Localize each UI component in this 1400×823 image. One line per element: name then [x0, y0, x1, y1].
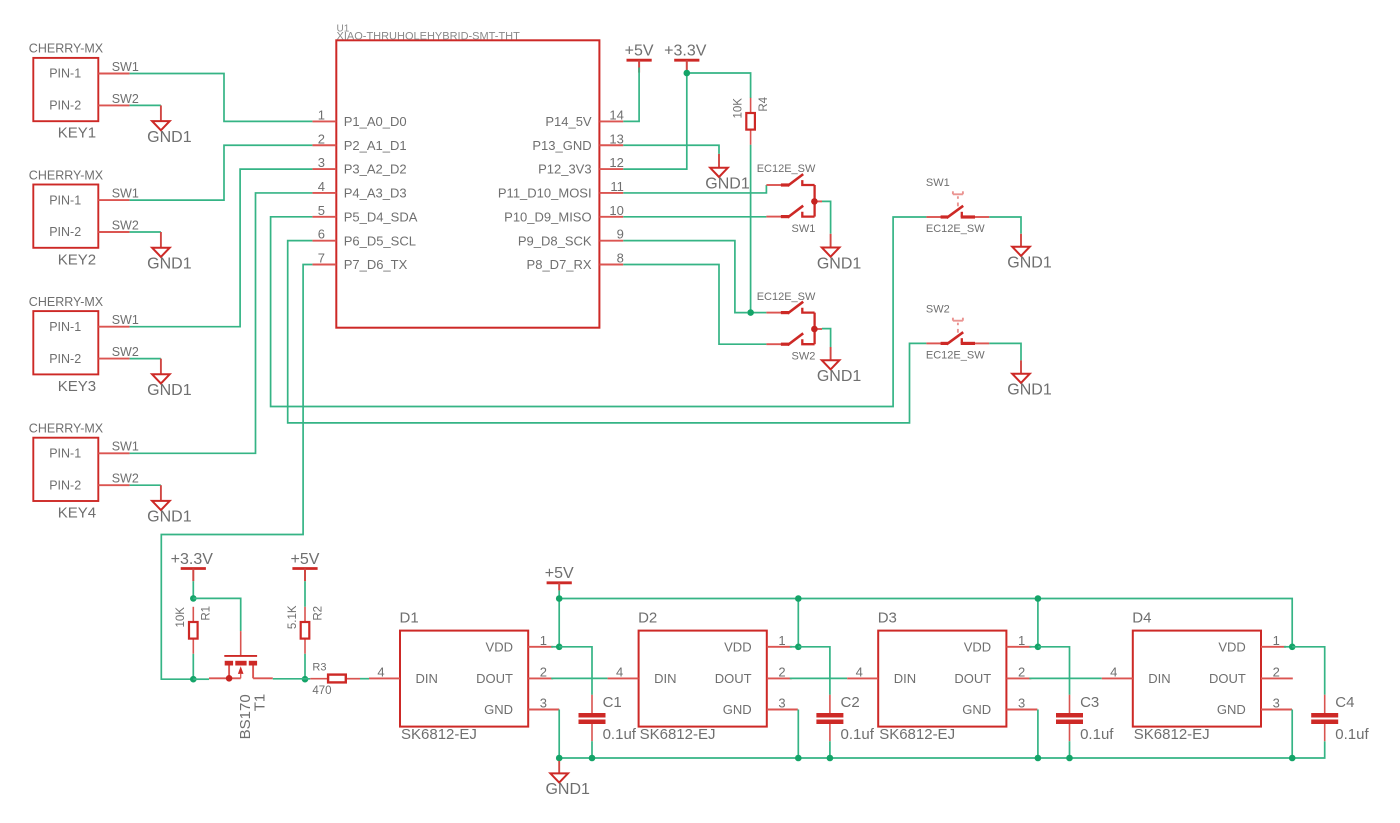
svg-text:P9_D8_SCK: P9_D8_SCK — [518, 233, 592, 248]
svg-text:SW2: SW2 — [112, 345, 139, 359]
pin 2 (SW2) of KEY2 — [98, 231, 129, 233]
svg-text:P11_D10_MOSI: P11_D10_MOSI — [498, 186, 592, 201]
svg-text:KEY2: KEY2 — [58, 251, 96, 268]
wire U1 pin11 to encoder1 A — [623, 185, 766, 193]
svg-text:CHERRY-MX: CHERRY-MX — [29, 168, 104, 182]
svg-text:P1_A0_D0: P1_A0_D0 — [344, 114, 407, 129]
pin 1 (VDD) of D2 — [767, 633, 792, 648]
wire D3 GND to rail — [1037, 710, 1039, 759]
svg-text:3: 3 — [1018, 696, 1025, 711]
ground GND1 at LED rail — [545, 761, 590, 798]
svg-text:GND1: GND1 — [147, 509, 192, 526]
pin 3 (GND) of D4 — [1261, 696, 1292, 711]
svg-text:P10_D9_MISO: P10_D9_MISO — [504, 209, 591, 224]
svg-text:14: 14 — [609, 107, 623, 122]
svg-text:3: 3 — [318, 155, 325, 170]
svg-text:SW1: SW1 — [112, 60, 139, 74]
pin 2 (SW2) of KEY4 — [98, 484, 129, 486]
svg-text:0.1uf: 0.1uf — [603, 726, 637, 743]
svg-text:CHERRY-MX: CHERRY-MX — [29, 295, 104, 309]
svg-text:EC12E_SW: EC12E_SW — [757, 163, 816, 175]
wire D1 GND to rail — [558, 710, 560, 759]
svg-text:0.1uf: 0.1uf — [841, 726, 875, 743]
svg-text:3: 3 — [778, 696, 785, 711]
svg-text:P3_A2_D2: P3_A2_D2 — [344, 162, 407, 177]
pin 2 (DOUT) of D2 — [767, 664, 792, 679]
svg-text:1: 1 — [778, 633, 785, 648]
wire U1 pin5 to pushbutton SW1 — [271, 217, 927, 407]
pin 2 (SW2) of KEY1 — [98, 104, 129, 106]
svg-text:470: 470 — [312, 685, 331, 697]
svg-text:GND1: GND1 — [705, 176, 750, 193]
svg-text:KEY4: KEY4 — [58, 505, 96, 522]
svg-text:12: 12 — [609, 155, 623, 170]
svg-text:PIN-2: PIN-2 — [49, 478, 81, 492]
junction (D1 GND at rail) — [556, 755, 563, 762]
svg-text:+3.3V: +3.3V — [171, 551, 214, 568]
pin 4 (P4_A3_D3) of U1 — [312, 179, 406, 201]
junction (R1 top / gate node) — [190, 595, 197, 602]
wire GND rail (bottom) — [559, 741, 1324, 758]
switch SW2 (EC12E_SW pushbutton) — [926, 318, 989, 345]
svg-text:1: 1 — [540, 633, 547, 648]
junction (C1 at GND rail) — [589, 755, 596, 762]
wire encoder2 common to ground — [822, 329, 831, 347]
svg-text:DOUT: DOUT — [1209, 671, 1246, 686]
svg-text:GND: GND — [1217, 702, 1246, 717]
pin 1 (SW1) of KEY4 — [98, 452, 129, 454]
wire U1 pin14 to +5V — [623, 68, 639, 122]
svg-text:10K: 10K — [175, 607, 187, 628]
svg-text:VDD: VDD — [964, 639, 991, 654]
svg-text:EC12E_SW: EC12E_SW — [926, 350, 985, 362]
wire KEY4 SW2 to ground — [130, 484, 161, 486]
svg-text:R1: R1 — [201, 606, 213, 621]
svg-text:1: 1 — [1018, 633, 1025, 648]
wire +3.3V to U1 pin12 — [623, 73, 687, 169]
pin 8 (P8_D7_RX) of U1 — [527, 251, 624, 273]
svg-text:8: 8 — [617, 251, 624, 266]
junction (T1 source pad) — [226, 675, 233, 682]
wire encoder2 A node to pin — [751, 312, 767, 314]
svg-text:+5V: +5V — [545, 565, 574, 582]
wire U1 pin8 to encoder2 B — [623, 265, 766, 345]
pin 4 (DIN) of D4 — [1102, 664, 1133, 679]
svg-text:XIAO-THRUHOLEHYBRID-SMT-THT: XIAO-THRUHOLEHYBRID-SMT-THT — [337, 31, 521, 43]
pin 4 (DIN) of D2 — [608, 664, 639, 679]
label EC12E_SW (SW2) — [757, 291, 816, 303]
wire D3 VDD node to C3 — [1038, 647, 1070, 695]
svg-text:PIN-1: PIN-1 — [49, 193, 81, 207]
svg-text:DIN: DIN — [1148, 671, 1170, 686]
svg-text:SK6812-EJ: SK6812-EJ — [1134, 726, 1210, 743]
svg-text:2: 2 — [540, 664, 547, 679]
net label SW1 (KEY3) — [112, 313, 139, 327]
pin 10 (P10_D9_MISO) of U1 — [504, 203, 624, 225]
junction (D2 VDD node) — [795, 644, 802, 651]
pin 13 (P13_GND) of U1 — [532, 131, 624, 153]
junction (common of SW2) — [811, 326, 818, 333]
junction (+3.3V node) — [684, 70, 691, 77]
svg-text:DOUT: DOUT — [954, 671, 991, 686]
pin 2 (P2_A1_D1) of U1 — [312, 131, 406, 153]
net label SW2 (KEY1) — [112, 92, 139, 106]
junction (D2 GND at rail) — [795, 755, 802, 762]
svg-text:GND: GND — [962, 702, 991, 717]
svg-text:VDD: VDD — [486, 639, 513, 654]
svg-text:GND1: GND1 — [817, 368, 862, 385]
pin 4 (DIN) of D3 — [847, 664, 878, 679]
svg-text:P5_D4_SDA: P5_D4_SDA — [344, 209, 418, 224]
wire U1 pin13 to ground — [623, 145, 719, 154]
label SW2 (pushbutton) — [926, 304, 950, 316]
label SW1 — [792, 223, 816, 235]
wire D4 GND to rail — [1291, 710, 1293, 759]
diode D3 SK6812-EJ — [878, 609, 1007, 743]
wire R2 bottom to wire — [304, 654, 306, 679]
wire +5V rail (top) — [559, 599, 1292, 647]
svg-text:D3: D3 — [878, 609, 897, 626]
wire D2 VDD to rail column — [790, 646, 799, 648]
pin 14 (P14_5V) of U1 — [545, 107, 624, 129]
wire D3 DOUT to D4 DIN — [1029, 677, 1101, 679]
svg-text:3: 3 — [1273, 696, 1280, 711]
svg-text:5.1K: 5.1K — [287, 605, 299, 629]
svg-text:2: 2 — [1018, 664, 1025, 679]
wire pushbutton SW1 to ground — [989, 217, 1021, 234]
wire DIN net segment (T1 to R3) — [273, 678, 311, 680]
svg-text:1: 1 — [1273, 633, 1280, 648]
svg-text:2: 2 — [1273, 664, 1280, 679]
svg-text:SW1: SW1 — [926, 177, 950, 189]
pin 1 (SW1) of KEY2 — [98, 199, 129, 201]
wire D3 VDD to rail column — [1029, 646, 1038, 648]
label EC12E_SW (SW2 pushbutton) — [926, 350, 985, 362]
resistor R3 470 — [310, 662, 360, 698]
pin 7 (P7_D6_TX) of U1 — [312, 251, 407, 273]
svg-text:1: 1 — [318, 107, 325, 122]
svg-text:SW2: SW2 — [792, 350, 816, 362]
wire U1 pin6 to pushbutton SW2 — [288, 241, 927, 423]
net label SW2 (KEY4) — [112, 472, 139, 486]
svg-text:0.1uf: 0.1uf — [1335, 726, 1369, 743]
svg-text:PIN-2: PIN-2 — [49, 99, 81, 113]
svg-text:DOUT: DOUT — [715, 671, 752, 686]
capacitor C3 0.1uf — [1056, 694, 1114, 743]
label SW1 (pushbutton) — [926, 177, 950, 189]
wire rail drop to D1 VDD — [558, 599, 560, 647]
pin 3 (GND) of D2 — [767, 696, 798, 711]
net label SW1 (KEY2) — [112, 187, 139, 201]
svg-text:DIN: DIN — [894, 671, 916, 686]
wire KEY2 SW2 to ground — [130, 231, 161, 233]
svg-text:R4: R4 — [758, 96, 770, 111]
svg-text:GND1: GND1 — [1007, 382, 1052, 399]
svg-text:EC12E_SW: EC12E_SW — [757, 291, 816, 303]
wire KEY1 SW2 to ground — [130, 104, 161, 106]
wire +3.3V to R4 — [687, 73, 751, 98]
junction (D4 GND at rail) — [1289, 755, 1296, 762]
transistor T1 BS170 (MOSFET) — [224, 631, 268, 739]
resistor R1 10K — [175, 606, 213, 654]
svg-text:KEY1: KEY1 — [58, 125, 96, 142]
pin 1 (VDD) of D1 — [528, 633, 553, 648]
junction (common of SW1) — [811, 198, 818, 205]
junction (C2 at GND rail) — [827, 755, 834, 762]
svg-text:SW2: SW2 — [112, 92, 139, 106]
svg-text:+5V: +5V — [291, 551, 320, 568]
svg-text:2: 2 — [778, 664, 785, 679]
wire +3.3V to R1 top — [192, 581, 194, 598]
svg-text:4: 4 — [318, 179, 325, 194]
junction (rail at D3 VDD column) — [1035, 595, 1042, 602]
net label SW2 (KEY2) — [112, 218, 139, 232]
svg-text:9: 9 — [617, 227, 624, 242]
svg-text:EC12E_SW: EC12E_SW — [926, 223, 985, 235]
svg-text:P14_5V: P14_5V — [545, 114, 592, 129]
svg-text:CHERRY-MX: CHERRY-MX — [29, 42, 104, 56]
wire KEY3 SW1 to U1 pin3 — [130, 169, 313, 327]
diode D1 SK6812-EJ — [400, 609, 529, 743]
svg-text:C1: C1 — [603, 694, 622, 711]
svg-text:13: 13 — [609, 131, 623, 146]
wire KEY3 SW2 to ground — [130, 358, 161, 360]
svg-text:DOUT: DOUT — [476, 671, 513, 686]
ground GND1 at KEY3 — [147, 359, 192, 400]
svg-text:VDD: VDD — [724, 639, 751, 654]
label EC12E_SW (SW1) — [757, 163, 816, 175]
junction (D1 VDD node) — [556, 644, 563, 651]
pin 3 (GND) of D1 — [528, 696, 559, 711]
svg-text:P13_GND: P13_GND — [532, 138, 591, 153]
svg-text:11: 11 — [610, 179, 624, 194]
junction (encoder2 / R4 node) — [747, 309, 754, 316]
wire D2 GND to rail — [797, 710, 799, 759]
wire R3 to D1 DIN — [360, 678, 369, 680]
pin 9 (P9_D8_SCK) of U1 — [518, 227, 624, 249]
pin 11 (P11_D10_MOSI) of U1 — [498, 179, 624, 201]
resistor R2 5.1K — [287, 605, 325, 654]
svg-text:GND1: GND1 — [147, 129, 192, 146]
power +3.3V (top) — [664, 43, 707, 71]
junction (D3 GND at rail) — [1035, 755, 1042, 762]
svg-text:SW1: SW1 — [792, 223, 816, 235]
net label SW2 (KEY3) — [112, 345, 139, 359]
svg-text:4: 4 — [856, 664, 863, 679]
svg-text:SW2: SW2 — [926, 304, 950, 316]
svg-text:PIN-2: PIN-2 — [49, 352, 81, 366]
svg-text:GND1: GND1 — [545, 781, 590, 798]
svg-text:SK6812-EJ: SK6812-EJ — [879, 726, 955, 743]
wire gate wire from +3.3V node — [193, 598, 240, 631]
svg-text:P12_3V3: P12_3V3 — [538, 162, 592, 177]
pin 1 (VDD) of D3 — [1006, 633, 1031, 648]
wire KEY1 SW1 to U1 pin1 — [130, 74, 313, 122]
svg-text:GND1: GND1 — [147, 382, 192, 399]
power +5V (top) — [625, 43, 654, 73]
transistor-like rotary switch EC12E_SW (SW1 encoder) — [766, 174, 822, 217]
svg-text:SK6812-EJ: SK6812-EJ — [401, 726, 477, 743]
junction (rail at D1 VDD column) — [556, 595, 563, 602]
switch SW1 (EC12E_SW pushbutton) — [926, 191, 989, 218]
svg-text:C4: C4 — [1335, 694, 1354, 711]
svg-text:R3: R3 — [312, 662, 326, 674]
wire U1 pin10 to encoder1 B — [623, 216, 766, 218]
wire D1 DOUT to D2 DIN — [551, 677, 607, 679]
svg-text:4: 4 — [616, 664, 623, 679]
pin 1 (SW1) of KEY1 — [98, 73, 129, 75]
ground GND1 at KEY4 — [147, 485, 192, 526]
ground GND1 at KEY2 — [147, 232, 192, 273]
svg-text:PIN-2: PIN-2 — [49, 225, 81, 239]
svg-text:CHERRY-MX: CHERRY-MX — [29, 422, 104, 436]
wire rail drop to D2 VDD — [797, 599, 799, 647]
pin 1 (P1_A0_D0) of U1 — [312, 107, 406, 129]
wire D1 VDD to rail column — [551, 646, 559, 648]
svg-text:DIN: DIN — [654, 671, 676, 686]
wire rail drop to D3 VDD — [1037, 599, 1039, 647]
wire R4 to encoder1 node — [750, 145, 752, 313]
op-amp U1 XIAO-THRUHOLEHYBRID-SMT-THT (main MCU symbol) — [336, 23, 599, 327]
pin 1 (VDD) of D4 — [1261, 633, 1286, 648]
wire C2 to GND rail — [829, 741, 831, 758]
wire C3 to GND rail — [1069, 741, 1071, 758]
svg-text:P8_D7_RX: P8_D7_RX — [527, 257, 592, 272]
svg-text:+5V: +5V — [625, 43, 654, 60]
svg-text:PIN-1: PIN-1 — [49, 447, 81, 461]
net label SW1 (KEY1) — [112, 60, 139, 74]
ground GND1 at encoder SW1 — [817, 234, 862, 272]
wire D2 DOUT to D3 DIN — [790, 677, 847, 679]
label EC12E_SW (SW1 pushbutton) — [926, 223, 985, 235]
svg-text:GND1: GND1 — [147, 256, 192, 273]
svg-text:C2: C2 — [841, 694, 860, 711]
junction (rail at D2 VDD column) — [795, 595, 802, 602]
pin 3 (P3_A2_D2) of U1 — [312, 155, 406, 177]
junction (R1 bottom on DIN net) — [190, 676, 197, 683]
wire DIN net segment (left of T1) — [193, 678, 209, 680]
svg-text:4: 4 — [377, 664, 384, 679]
wire KEY2 SW1 to U1 pin2 — [130, 145, 313, 200]
svg-text:GND: GND — [484, 702, 513, 717]
svg-text:7: 7 — [318, 251, 325, 266]
svg-text:SW1: SW1 — [112, 313, 139, 327]
pin 2 (DOUT) of D1 — [528, 664, 553, 679]
svg-text:SK6812-EJ: SK6812-EJ — [640, 726, 716, 743]
diode D4 SK6812-EJ — [1132, 609, 1261, 743]
pin 12 (P12_3V3) of U1 — [538, 155, 624, 177]
pin 2 (DOUT) of D4 — [1261, 664, 1293, 679]
svg-text:DIN: DIN — [416, 671, 438, 686]
svg-text:C3: C3 — [1080, 694, 1099, 711]
junction (D3 VDD node) — [1035, 644, 1042, 651]
svg-text:0.1uf: 0.1uf — [1080, 726, 1114, 743]
diode D2 SK6812-EJ — [638, 609, 767, 743]
svg-text:SW2: SW2 — [112, 472, 139, 486]
svg-text:D2: D2 — [638, 609, 657, 626]
net label SW1 (KEY4) — [112, 440, 139, 454]
ground GND1 at pushbutton SW2 — [1007, 360, 1052, 398]
svg-text:GND: GND — [723, 702, 752, 717]
switch KEY3 (CHERRY-MX) — [29, 295, 104, 395]
rotary switch EC12E_SW (SW2 encoder) — [766, 302, 822, 345]
junction (R2 bottom) — [302, 676, 309, 683]
svg-text:SW2: SW2 — [112, 218, 139, 232]
wire source side of T1 (red) — [209, 677, 241, 679]
pin 3 (GND) of D3 — [1006, 696, 1037, 711]
ground GND1 at U1 pin13 — [705, 154, 750, 193]
wire drain side of T1 (red) — [253, 677, 273, 679]
svg-text:D1: D1 — [400, 609, 419, 626]
svg-text:T1: T1 — [252, 694, 269, 712]
svg-text:SW1: SW1 — [112, 187, 139, 201]
svg-text:P6_D5_SCL: P6_D5_SCL — [344, 233, 416, 248]
power +5V (LED rail) — [545, 565, 574, 590]
junction (D4 VDD node) — [1289, 644, 1296, 651]
wire encoder1 common to ground — [822, 201, 831, 233]
svg-text:4: 4 — [1110, 664, 1117, 679]
wire U1 pin9 to encoder2 A — [623, 241, 747, 313]
svg-text:P7_D6_TX: P7_D6_TX — [344, 257, 408, 272]
power +3.3V (bottom) — [171, 551, 214, 581]
wire U1 pin7 to level shifter (DIN net) — [161, 265, 312, 680]
wire R1 bottom to DIN net — [192, 654, 194, 679]
svg-text:GND1: GND1 — [817, 255, 862, 272]
wire D1 VDD node to C1 — [559, 647, 592, 695]
svg-text:3: 3 — [540, 696, 547, 711]
wire D4 VDD to rail column — [1284, 646, 1292, 648]
pin 5 (P5_D4_SDA) of U1 — [312, 203, 417, 225]
svg-text:R2: R2 — [312, 606, 324, 621]
pin 2 (SW2) of KEY3 — [98, 358, 129, 360]
svg-text:PIN-1: PIN-1 — [49, 67, 81, 81]
switch KEY1 (CHERRY-MX) — [29, 42, 104, 142]
capacitor C2 0.1uf — [816, 694, 874, 743]
capacitor C1 0.1uf — [579, 694, 637, 743]
svg-text:6: 6 — [318, 227, 325, 242]
capacitor C4 0.1uf — [1311, 694, 1369, 743]
switch KEY2 (CHERRY-MX) — [29, 168, 104, 268]
wire +5V stub to rail — [558, 590, 560, 598]
svg-text:5: 5 — [318, 203, 325, 218]
wire pushbutton SW2 to ground — [989, 343, 1021, 360]
svg-text:2: 2 — [318, 131, 325, 146]
junction (C3 at GND rail) — [1066, 755, 1073, 762]
pin 6 (P6_D5_SCL) of U1 — [312, 227, 416, 249]
ground GND1 at encoder SW2 — [817, 347, 862, 385]
svg-text:VDD: VDD — [1218, 639, 1245, 654]
svg-text:+3.3V: +3.3V — [664, 43, 707, 60]
ground GND1 at pushbutton SW1 — [1007, 234, 1052, 272]
resistor R4 10K — [732, 96, 770, 144]
pin 2 (DOUT) of D3 — [1006, 664, 1031, 679]
svg-text:10: 10 — [609, 203, 623, 218]
svg-text:P4_A3_D3: P4_A3_D3 — [344, 186, 407, 201]
wire C1 to GND rail — [591, 741, 593, 758]
svg-text:P2_A1_D1: P2_A1_D1 — [344, 138, 407, 153]
svg-text:GND1: GND1 — [1007, 255, 1052, 272]
svg-text:PIN-1: PIN-1 — [49, 320, 81, 334]
wire +5V to R2 top — [304, 581, 306, 607]
pin 4 (DIN) of D1 — [369, 664, 400, 679]
ground GND1 at KEY1 — [147, 105, 192, 145]
svg-text:10K: 10K — [732, 98, 744, 119]
label SW2 — [792, 350, 816, 362]
wire KEY4 SW1 to U1 pin4 — [130, 193, 313, 453]
pin 1 (SW1) of KEY3 — [98, 326, 129, 328]
svg-text:KEY3: KEY3 — [58, 378, 96, 395]
svg-text:D4: D4 — [1132, 609, 1151, 626]
